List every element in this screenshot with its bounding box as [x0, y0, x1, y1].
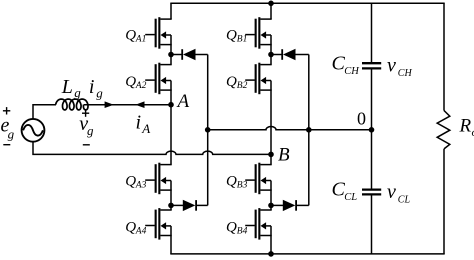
label eg	[1, 115, 15, 142]
svg-text:B: B	[278, 145, 290, 166]
label iA	[136, 111, 151, 136]
label CCL	[332, 178, 358, 203]
wire DB1 anode to clamp bus B	[296, 54, 309, 56]
wire QB1 source	[270, 45, 272, 55]
svg-text:B4: B4	[237, 227, 248, 237]
label vCL	[387, 181, 410, 206]
transistor QB1	[245, 17, 272, 48]
label QB3	[226, 173, 248, 190]
plus mark vg	[82, 110, 89, 117]
wire clamp bus B vertical	[308, 55, 310, 206]
wire right edge (load branch)	[443, 3, 445, 254]
wire QA1 source	[170, 45, 172, 55]
svg-text:Q: Q	[125, 74, 136, 90]
diode DA1 (clamp upper A)	[182, 49, 195, 60]
plus mark source	[3, 107, 10, 114]
wire QA1 drain	[170, 3, 172, 19]
junction dot QB3-QB4	[268, 203, 274, 209]
junction dot QB1-QB2	[268, 52, 274, 58]
wire DA2 cathode to clamp bus A	[196, 204, 208, 206]
svg-text:A1: A1	[135, 35, 147, 45]
svg-text:L: L	[61, 76, 73, 98]
inductor Lg	[56, 99, 88, 110]
label QA3	[125, 173, 146, 190]
svg-text:g: g	[96, 86, 103, 101]
label QA1	[125, 28, 146, 45]
wire QA4 drain	[170, 205, 172, 210]
svg-text:A2: A2	[135, 81, 147, 91]
svg-text:B2: B2	[237, 81, 248, 91]
svg-text:g: g	[87, 123, 94, 138]
wire bottom rail	[170, 253, 444, 255]
wire QB3-QB4 junction to diode DB2	[271, 204, 283, 206]
svg-text:v: v	[387, 181, 396, 203]
capacitor CCH	[362, 63, 381, 68]
wire capacitor branch lower	[371, 196, 373, 254]
wire QA3 source	[170, 190, 172, 205]
wire midpoint rail (hops over leg B)	[208, 127, 372, 130]
label ig	[89, 76, 103, 100]
svg-text:CL: CL	[344, 192, 357, 203]
label Ro	[459, 115, 474, 139]
transistor QB2	[245, 63, 272, 95]
svg-text:Q: Q	[125, 28, 136, 44]
wire DA1 anode to clamp bus A	[196, 54, 208, 56]
svg-text:A4: A4	[135, 227, 147, 237]
voltage source eg	[22, 119, 45, 142]
svg-text:R: R	[459, 115, 472, 136]
transistor QB4	[245, 208, 272, 240]
svg-text:B1: B1	[237, 35, 248, 45]
diode DB2 (clamp lower B)	[283, 200, 296, 211]
svg-text:A: A	[141, 121, 150, 136]
label QA2	[125, 74, 146, 91]
junction dot leg B top rail	[268, 1, 274, 7]
diode DB1 (clamp upper B)	[282, 49, 295, 60]
wire source bottom to node B (hops over leg A and clamp A)	[33, 142, 271, 155]
junction dot QA3-QA4	[168, 203, 174, 209]
wire DB2 cathode to clamp bus B	[296, 204, 309, 206]
wire to clamp diode DB1	[271, 54, 283, 56]
diode DA2 (clamp lower A)	[183, 200, 196, 211]
svg-text:Q: Q	[226, 220, 237, 236]
wire QA3-QA4 junction to diode DA2	[171, 204, 183, 206]
minus mark source	[3, 144, 10, 146]
wire QA4 source	[170, 236, 172, 254]
wire QB4 drain	[270, 205, 272, 210]
wire leg A mid (A to QA3)	[170, 105, 172, 165]
svg-text:B3: B3	[237, 181, 248, 191]
junction dot clamp A to midpoint rail	[205, 127, 211, 133]
label QB4	[226, 220, 248, 237]
wire QB2 source to node B	[270, 90, 272, 165]
svg-text:Q: Q	[226, 173, 237, 189]
wire clamp bus A vertical	[207, 55, 209, 206]
minus mark vg	[83, 144, 90, 146]
svg-text:g: g	[74, 85, 81, 100]
svg-text:Q: Q	[125, 220, 136, 236]
svg-text:g: g	[8, 127, 15, 142]
wire QA2 drain	[170, 55, 172, 65]
wire capacitor branch middle	[371, 69, 373, 188]
transistor QA1	[145, 17, 172, 48]
wire QB3 source	[270, 190, 272, 205]
svg-text:A3: A3	[135, 181, 147, 191]
transistor QA2	[145, 63, 172, 95]
wire A node feed	[84, 104, 171, 106]
wire source top	[33, 105, 56, 120]
resistor Ro	[437, 111, 450, 149]
transistor QA4	[145, 208, 172, 240]
wire QB2 drain	[270, 55, 272, 65]
label QB2	[226, 74, 248, 91]
junction dot QA1-QA2	[168, 52, 174, 58]
transistor QA3	[145, 163, 172, 195]
svg-text:Q: Q	[226, 28, 237, 44]
svg-text:A: A	[176, 91, 190, 112]
svg-text:i: i	[89, 76, 95, 98]
svg-text:CH: CH	[344, 66, 360, 77]
label vCH	[387, 54, 412, 79]
label QA4	[125, 220, 146, 237]
wire capacitor branch upper	[371, 3, 373, 62]
wire to clamp diode DA1	[171, 54, 183, 56]
wire top rail	[170, 2, 444, 4]
svg-text:v: v	[387, 54, 396, 76]
current arrow iA	[135, 101, 144, 108]
svg-text:CL: CL	[398, 195, 411, 206]
current arrow ig	[105, 101, 114, 108]
wire QA2 source to node A	[170, 90, 172, 105]
svg-text:0: 0	[357, 109, 366, 129]
label CCH	[332, 52, 361, 77]
label Lg	[61, 76, 82, 100]
svg-text:Q: Q	[226, 74, 237, 90]
capacitor CCL	[362, 190, 381, 195]
wire QB4 source	[270, 236, 272, 254]
svg-text:i: i	[136, 111, 142, 133]
node 0 junction dot	[369, 127, 375, 133]
junction dot clamp B to midpoint rail	[306, 127, 312, 133]
svg-text:Q: Q	[125, 173, 136, 189]
transistor QB3	[245, 163, 272, 195]
label vg	[79, 113, 94, 138]
svg-text:CH: CH	[398, 68, 413, 79]
junction dot leg B bottom rail	[268, 251, 274, 257]
label QB1	[226, 28, 247, 45]
node A junction dot	[168, 102, 174, 108]
node B junction dot	[268, 152, 274, 158]
wire QB1 drain	[270, 3, 272, 19]
